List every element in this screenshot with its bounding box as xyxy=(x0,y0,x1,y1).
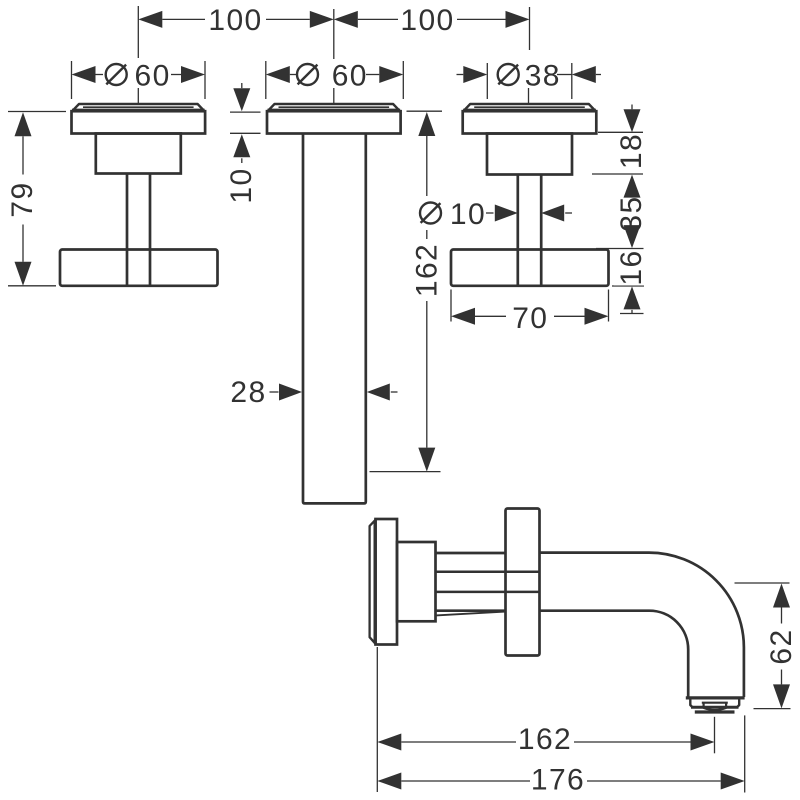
spout pipe side view top edge (left of handle bar) xyxy=(436,552,506,555)
svg-text:10: 10 xyxy=(225,167,258,203)
spout escutcheon (D60 flange) xyxy=(268,104,400,111)
dimension 16 label xyxy=(614,250,647,286)
aerator bottom face xyxy=(695,710,735,713)
side view wall plate xyxy=(376,519,398,645)
spout pipe side view bottom edge (left of handle bar) xyxy=(436,609,506,612)
dimension 35 extension tick xyxy=(596,248,644,250)
right handle centreline below label xyxy=(528,88,530,103)
handle stem taper line xyxy=(436,612,506,616)
aerator flange xyxy=(686,696,745,699)
dimension D60 middle dim line stubs xyxy=(290,74,296,76)
right handle sleeve (D38) xyxy=(487,134,572,175)
dimension 62 line and arrows xyxy=(773,584,790,608)
dimension 100 left dim line xyxy=(162,18,205,20)
handle cross bar side view xyxy=(506,509,540,656)
dimension 79 line and arrows xyxy=(15,112,32,136)
dimension D38 right: extension ticks xyxy=(486,63,488,99)
spout inner contour xyxy=(540,611,689,697)
dimension 162 side: line and arrows xyxy=(377,734,401,751)
dimension 70 line and arrows xyxy=(451,308,475,325)
dimension 100 (left handle to spout) extension line left xyxy=(137,6,139,58)
side view handle sleeve xyxy=(397,542,436,621)
dimension D38 label xyxy=(498,64,519,85)
left handle escutcheon (D60 flange) xyxy=(72,104,204,111)
dimension 176 line and arrows xyxy=(377,773,401,790)
dimension 162 front: bottom extension line xyxy=(370,471,441,473)
svg-text:38: 38 xyxy=(525,59,561,92)
svg-text:79: 79 xyxy=(6,181,39,217)
dimension 62 extension ticks xyxy=(735,582,790,584)
dimension D60 left arrows xyxy=(72,66,96,83)
svg-text:60: 60 xyxy=(332,59,368,92)
dimension 18 extension ticks xyxy=(598,131,643,133)
svg-text:18: 18 xyxy=(615,133,648,169)
aerator ring xyxy=(690,700,739,708)
dimension 176: extension line at spout tip xyxy=(744,715,746,792)
svg-text:176: 176 xyxy=(531,763,585,796)
spout centreline below label xyxy=(333,88,335,103)
dimension 100 right dim line xyxy=(358,18,398,20)
dimension 162 front: line and arrows xyxy=(418,112,435,136)
spout outer contour with 90 degree bend xyxy=(540,553,744,697)
dimension 79 extension lines xyxy=(8,111,66,113)
side view wall plate bevel edge xyxy=(370,520,376,644)
dimension D60 left label xyxy=(106,64,127,85)
dimension 16 extension tick xyxy=(612,285,644,287)
dimension D10 label and arrows (handle stem) xyxy=(408,239,444,301)
left handle stem xyxy=(126,174,129,285)
svg-text:70: 70 xyxy=(512,302,548,335)
left handle centreline below label xyxy=(137,88,139,103)
right handle cross bar (70 wide) xyxy=(451,250,609,286)
dimension 10 arrows xyxy=(241,83,243,88)
left handle cross bar xyxy=(60,250,218,286)
dimension 18 arrows xyxy=(631,105,633,110)
svg-text:162: 162 xyxy=(411,243,444,297)
aerator insert xyxy=(702,702,728,704)
dimension 162 front: top extension tick xyxy=(407,110,443,112)
handle stem lower line xyxy=(436,591,540,594)
dimension 100 centre extension line (spout axis) xyxy=(333,9,335,59)
dimension D60 left: extension ticks xyxy=(71,61,73,99)
dimension 10 label xyxy=(225,167,258,203)
handle stem upper line xyxy=(436,571,540,574)
spout pipe front view (D28) xyxy=(303,134,366,504)
dimension 62 label xyxy=(762,624,798,670)
dimension 16 arrows xyxy=(624,286,641,309)
svg-text:28: 28 xyxy=(230,376,266,409)
svg-text:100: 100 xyxy=(400,4,454,37)
dimension 35 arrows xyxy=(624,225,641,248)
dimension 18 label xyxy=(614,133,647,169)
svg-text:10: 10 xyxy=(450,198,486,231)
dimension D60 middle arrows xyxy=(266,66,290,83)
svg-text:162: 162 xyxy=(518,723,572,756)
dimension D60 middle: extension ticks xyxy=(265,61,267,99)
svg-text:62: 62 xyxy=(765,628,798,664)
left handle sleeve xyxy=(96,134,181,174)
svg-text:16: 16 xyxy=(615,249,648,285)
dimension 28 arrows xyxy=(270,391,279,393)
wall face extension line xyxy=(376,647,378,792)
svg-text:60: 60 xyxy=(135,59,171,92)
dimension 10 extension ticks xyxy=(230,111,261,113)
dimension 100 right extension line (right handle axis) xyxy=(529,7,531,50)
dimension D60 middle label xyxy=(297,64,318,85)
dimension 35 label xyxy=(614,196,647,232)
right handle escutcheon xyxy=(463,104,595,111)
dimension 162 side: extension line at aerator centre xyxy=(714,717,716,754)
dimension 70 extension lines xyxy=(450,290,452,322)
dimension D60 left dim line stubs xyxy=(96,74,104,76)
right handle stem (D10) xyxy=(516,175,519,285)
svg-text:100: 100 xyxy=(208,4,262,37)
dimension D38 right arrows and tails xyxy=(457,74,464,76)
dimension 79 label xyxy=(3,175,39,225)
dimension 100 left arrows xyxy=(138,11,162,28)
dimension 100 right arrows xyxy=(334,11,358,28)
dimension D38 dim line stub xyxy=(557,74,572,76)
